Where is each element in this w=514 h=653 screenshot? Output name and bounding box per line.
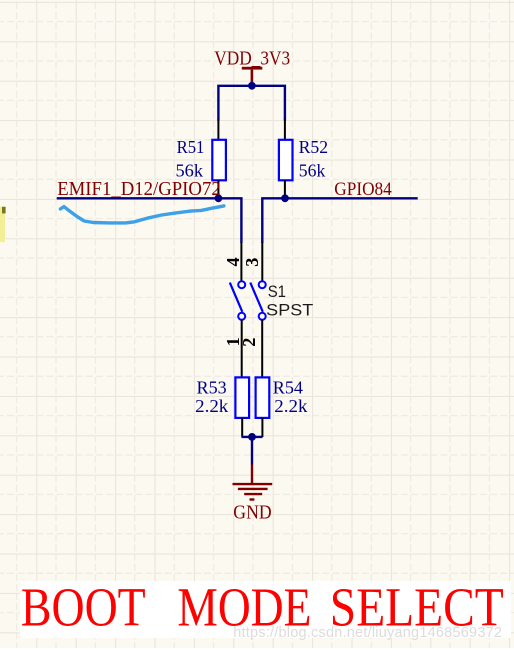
junction R52 to net	[281, 194, 289, 202]
pin number 3	[242, 258, 262, 267]
title word SELECT	[330, 577, 504, 638]
resistor R51 value 56k	[176, 160, 204, 180]
ground bar 4	[250, 498, 255, 500]
svg-text:SPST: SPST	[266, 300, 313, 319]
switch S1 pole A bottom contact	[238, 313, 245, 320]
switch S1 pole B bottom contact	[259, 313, 266, 320]
svg-text:S1: S1	[268, 282, 286, 301]
ground stem	[251, 465, 253, 484]
svg-text:GND: GND	[233, 502, 271, 523]
junction at GND node	[248, 433, 256, 441]
resistor R52 value 56k	[299, 160, 326, 180]
resistor R53 body	[235, 377, 249, 418]
pin number 4	[223, 257, 243, 266]
pin R52-1	[284, 120, 286, 141]
svg-text:R51: R51	[177, 137, 205, 157]
pin R51-2	[217, 180, 219, 198]
ground net label GND	[233, 502, 271, 523]
annotation yellow mark left edge	[0, 207, 6, 243]
resistor R54 value 2.2k	[274, 396, 307, 416]
ground bar 1	[233, 483, 273, 485]
wire top rail	[218, 86, 285, 121]
svg-text:R54: R54	[273, 377, 303, 397]
pin number 1	[223, 337, 243, 346]
switch S1 pole B top contact	[259, 281, 266, 288]
pin R53-2	[241, 418, 243, 437]
svg-text:BOOT: BOOT	[21, 577, 146, 638]
switch S1 designator	[268, 282, 286, 301]
resistor R54 body	[256, 377, 270, 418]
svg-text:GPIO84: GPIO84	[334, 179, 392, 200]
junction at VDD rail	[248, 82, 256, 90]
svg-text:56k: 56k	[299, 160, 326, 180]
svg-text:2.2k: 2.2k	[195, 396, 228, 416]
resistor R54 designator	[273, 377, 303, 397]
svg-text:R53: R53	[197, 377, 227, 397]
ground bar 3	[244, 493, 262, 495]
pin S1-4 wire	[240, 242, 242, 281]
svg-text:2.2k: 2.2k	[274, 396, 307, 416]
pin number 2	[239, 338, 259, 347]
pin R54-2	[261, 418, 263, 437]
junction R51 to net	[215, 194, 223, 202]
resistor R53 designator	[197, 377, 227, 397]
svg-text:2: 2	[239, 338, 259, 347]
pin S1-3 wire	[261, 242, 263, 281]
title background panel	[20, 581, 511, 638]
svg-text:4: 4	[223, 257, 243, 266]
switch S1 pole B lever	[250, 283, 262, 312]
svg-text:VDD_3V3: VDD_3V3	[214, 49, 290, 70]
pin S1-2 wire	[261, 320, 263, 378]
title word MODE	[177, 577, 311, 638]
switch S1 pole A lever	[230, 283, 243, 312]
ground bar 2	[238, 488, 268, 490]
resistor R52 body	[279, 140, 293, 181]
wire joining R53 R54 bottoms	[242, 436, 263, 438]
power port VDD_3V3 label	[214, 49, 290, 70]
resistor R52 designator	[299, 137, 329, 157]
switch S1 pole A top contact	[238, 281, 245, 288]
wire left net EMIF1_D12/GPIO72	[57, 198, 242, 243]
switch S1 comment SPST	[266, 300, 313, 319]
svg-text:3: 3	[242, 258, 262, 267]
resistor R51 designator	[177, 137, 205, 157]
svg-text:EMIF1_D12/GPIO72: EMIF1_D12/GPIO72	[57, 179, 221, 200]
pin R52-2	[284, 180, 286, 198]
power port VDD_3V3 bar symbol	[242, 67, 262, 86]
annotation blue marker squiggle	[60, 206, 224, 223]
net label GPIO84	[334, 179, 392, 200]
wire right net GPIO84	[262, 198, 417, 243]
resistor R51 body	[212, 140, 226, 181]
net label EMIF1_D12/GPIO72	[57, 179, 221, 200]
resistor R53 value 2.2k	[195, 396, 228, 416]
watermark url	[233, 625, 502, 641]
pin S1-1 wire	[241, 320, 243, 378]
wire to ground	[251, 437, 253, 465]
pin R51-1	[217, 120, 219, 141]
svg-text:56k: 56k	[176, 160, 204, 180]
title word BOOT	[21, 577, 146, 638]
svg-text:R52: R52	[299, 137, 329, 157]
svg-text:https://blog.csdn.net/liuyang1: https://blog.csdn.net/liuyang1468569372	[233, 625, 502, 641]
